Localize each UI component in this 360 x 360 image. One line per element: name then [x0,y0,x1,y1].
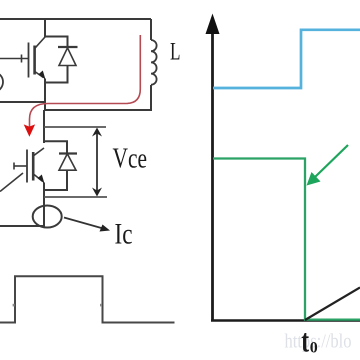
svg-text:t: t [301,323,309,359]
svg-text:L: L [170,39,181,66]
svg-text:Ic: Ic [115,218,133,251]
svg-text:Vce: Vce [113,143,148,175]
svg-text:https://blo: https://blo [285,331,352,353]
svg-text:0: 0 [310,340,318,357]
